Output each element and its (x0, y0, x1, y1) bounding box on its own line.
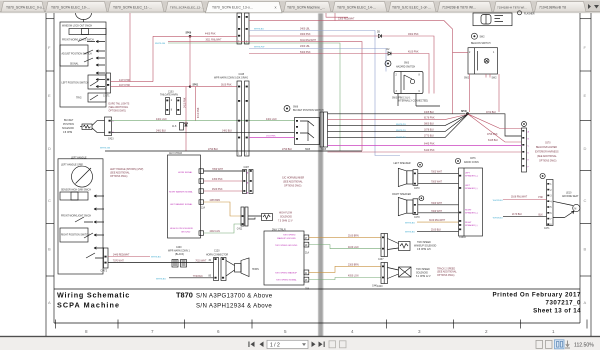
svg-text:3011 RNL/WHT: 3011 RNL/WHT (206, 39, 223, 41)
svg-text:4485 BRN: 4485 BRN (210, 200, 221, 202)
svg-text:HORN CONNECTOR: HORN CONNECTOR (206, 254, 229, 256)
svg-text:SW3: SW3 (404, 63, 410, 65)
inactive tabs (1, 2, 586, 13)
svg-text:HORN SIGNAL: HORN SIGNAL (178, 171, 193, 174)
svg-text:HIGH FLOW: HIGH FLOW (279, 213, 293, 215)
wire riser 3410 PNK (185, 87, 187, 151)
sheet frame left inner border (53, 13, 55, 323)
connector C27 strip (547, 180, 554, 226)
diode D4 (185, 123, 188, 126)
motor M (573, 204, 580, 211)
wire 3440 RED/WHT (108, 256, 150, 258)
connector C438 upper strip (237, 13, 242, 44)
wire 403 5 PNK (111, 86, 191, 88)
svg-text:2790 BLK: 2790 BLK (282, 149, 293, 151)
svg-text:WHT/LPU: WHT/LPU (396, 137, 406, 139)
svg-text:C-AT1: C-AT1 (103, 95, 110, 98)
svg-text:2: 2 (485, 329, 488, 334)
svg-text:FRONT WORKLIGHTS SWCH: FRONT WORKLIGHTS SWCH (62, 40, 94, 42)
svg-text:BUCKET: BUCKET (64, 120, 74, 122)
frame row ticks left (46, 19, 54, 276)
svg-text:RIGHT SPEAKER: RIGHT SPEAKER (392, 193, 411, 196)
window lockout switch row (69, 29, 106, 35)
svg-text:SJC HORN/BLINKER: SJC HORN/BLINKER (282, 178, 305, 180)
svg-text:2170 BLK: 2170 BLK (512, 214, 523, 216)
svg-text:WHT/LBU: WHT/LBU (254, 29, 264, 31)
left position switch box (88, 75, 106, 89)
switch SW8 body (295, 118, 320, 145)
svg-text:RIGHT: RIGHT (465, 222, 472, 224)
radio connector symbol (455, 158, 460, 163)
svg-text:WHT/LBU: WHT/LBU (493, 217, 503, 219)
svg-text:SIGNAL: SIGNAL (70, 63, 79, 66)
svg-text:BEACON/FLASHER: BEACON/FLASHER (536, 146, 557, 149)
svg-text:Wiring Schematic: Wiring Schematic (57, 291, 130, 300)
svg-text:1: 1 (552, 329, 555, 334)
frame row ticks right (580, 19, 591, 276)
switch SW2 beacon body (468, 48, 498, 74)
svg-text:E: E (584, 93, 587, 98)
svg-text:BEACON SWITCH: BEACON SWITCH (471, 42, 491, 45)
svg-text:B: B (48, 247, 51, 252)
wire 7003 WHT right (418, 204, 459, 206)
wire 4520 PNK (204, 190, 243, 192)
svg-text:RIGHT POSITION SWITCH: RIGHT POSITION SWITCH (61, 235, 90, 237)
svg-text:SOLENOID: SOLENOID (416, 273, 428, 275)
svg-text:7194198RevB T8: 7194198RevB T8 (539, 5, 566, 9)
wire 0100 PNK (190, 86, 237, 88)
svg-text:7000 WHT: 7000 WHT (431, 182, 443, 184)
svg-text:4400 PNK: 4400 PNK (205, 34, 216, 36)
wire 2160 BLK radio ground (417, 230, 459, 232)
svg-text:SW8: SW8 (305, 149, 311, 151)
connector C-AT1 (106, 73, 111, 93)
left handle box (58, 159, 103, 274)
svg-text:WPR HARN CONN 1: WPR HARN CONN 1 (168, 250, 191, 253)
svg-text:SP46: SP46 (461, 110, 467, 113)
svg-text:443 5 PNK: 443 5 PNK (119, 80, 131, 82)
svg-text:ADJUST POSITION SWITCH: ADJUST POSITION SWITCH (62, 53, 93, 56)
two speed wakeup solenoid coil (399, 242, 411, 251)
svg-text:(SEE ADDITIONAL: (SEE ADDITIONAL (437, 271, 457, 274)
svg-text:C: C (48, 198, 51, 203)
horn HN01 (235, 264, 242, 273)
svg-text:2160 BLK: 2160 BLK (431, 229, 442, 231)
svg-text:2160 BRN: 2160 BRN (348, 236, 359, 238)
svg-text:C278: C278 (414, 217, 420, 219)
svg-text:11.8: 11.8 (172, 126, 177, 128)
wire 4402 LGN (204, 224, 242, 233)
wires C411 to high flow solenoid (248, 216, 262, 219)
svg-text:WHT/LPW: WHT/LPW (254, 47, 265, 49)
svg-text:C440: C440 (377, 286, 383, 288)
svg-text:WHT/LBU: WHT/LBU (493, 200, 503, 202)
svg-text:7003 WHT: 7003 WHT (431, 203, 443, 205)
AUX controller box (168, 155, 201, 238)
left switch panel box (60, 22, 106, 107)
connector C270 (413, 170, 418, 186)
svg-text:C: C (584, 198, 587, 203)
svg-text:D: D (584, 146, 587, 151)
title block top line (54, 288, 580, 290)
page number box (267, 340, 308, 348)
svg-text:T870_SCPA Machine_...: T870_SCPA Machine_... (287, 5, 325, 9)
svg-text:D: D (48, 146, 51, 151)
air ride seat connector symbol (540, 173, 545, 178)
svg-text:TRACK 2 SPEED: TRACK 2 SPEED (437, 268, 455, 271)
svg-text:FRONT WORKLIGHT SWCH: FRONT WORKLIGHT SWCH (61, 216, 91, 218)
svg-text:RADIO CONN: RADIO CONN (464, 161, 479, 164)
svg-text:WAKEUP GROUND: WAKEUP GROUND (277, 237, 296, 240)
svg-text:SW8: SW8 (293, 107, 299, 109)
svg-text:C120: C120 (214, 251, 220, 253)
svg-text:TWO SPEED: TWO SPEED (417, 242, 431, 244)
svg-text:7003 WHT: 7003 WHT (431, 172, 443, 174)
wire 301 RNL/WHT (168, 42, 362, 151)
svg-text:BUCKET POSITION SWITCH: BUCKET POSITION SWITCH (293, 110, 324, 112)
svg-text:7070 WHT: 7070 WHT (113, 261, 125, 263)
svg-text:4160 LGN: 4160 LGN (348, 247, 359, 249)
svg-text:2481 BLK: 2481 BLK (156, 131, 167, 133)
svg-text:TWO SPEED WAKEUP: TWO SPEED WAKEUP (275, 272, 298, 275)
svg-text:WHT/LGN: WHT/LGN (155, 43, 166, 45)
svg-text:WHT/LBU: WHT/LBU (156, 278, 166, 280)
svg-text:WHT/LPU: WHT/LPU (396, 124, 406, 126)
svg-text:OPTIONS DWG): OPTIONS DWG) (109, 111, 127, 113)
svg-text:S/N A3PG13700 & Above: S/N A3PG13700 & Above (196, 292, 273, 299)
svg-text:SPEAKER (+): SPEAKER (+) (465, 175, 478, 178)
svg-text:C103: C103 (168, 92, 174, 94)
beacon switch symbol (471, 33, 477, 39)
svg-text:4450 PNK: 4450 PNK (212, 179, 223, 181)
svg-text:SW8: SW8 (321, 149, 327, 151)
svg-text:SCPA Machine: SCPA Machine (57, 301, 120, 310)
wire 4400 PNK (153, 35, 237, 37)
left speaker LS1 (398, 168, 407, 186)
harness bundle wire 6445 PNK magenta (328, 145, 522, 147)
wire 7070 WHT (108, 262, 214, 264)
svg-text:0100 PNK: 0100 PNK (221, 85, 232, 87)
svg-text:T870_SCPA ELEC_14-...: T870_SCPA ELEC_14-... (337, 5, 376, 9)
svg-text:SW2: SW2 (464, 77, 470, 79)
svg-text:12A: 12A (201, 207, 206, 210)
frame row letters left (48, 45, 51, 305)
wire 7000 WHT right (418, 212, 459, 214)
svg-text:3773 BLK: 3773 BLK (424, 136, 435, 138)
joystick circle (72, 166, 93, 187)
svg-text:3410 PNK: 3410 PNK (184, 97, 186, 108)
SP46 red fan to C670 (468, 114, 522, 142)
svg-text:S/N A3PH12934 & Above: S/N A3PH12934 & Above (196, 302, 272, 309)
svg-text:7: 7 (151, 329, 154, 334)
svg-text:7010 WHT: 7010 WHT (195, 261, 207, 263)
svg-text:FLASHER: FLASHER (524, 12, 535, 15)
svg-text:AIR RIDE SEAT: AIR RIDE SEAT (562, 195, 579, 198)
connector circle top (76, 13, 92, 20)
connector C437 (381, 234, 388, 257)
wire 4050 LGN (309, 278, 381, 280)
svg-text:A: A (48, 300, 51, 305)
svg-text:LE10: LE10 (566, 192, 572, 194)
wire 4160 LGN (309, 245, 381, 249)
svg-text:Sheet 13 of 14: Sheet 13 of 14 (533, 308, 581, 315)
svg-text:3400 LBL: 3400 LBL (300, 29, 311, 31)
tab scroll arrows (588, 4, 591, 9)
switch contact arrows (96, 40, 105, 87)
scan seam strip (318, 13, 324, 336)
svg-text:SP09: SP09 (186, 33, 192, 35)
svg-text:WAKEUP SOLENOID: WAKEUP SOLENOID (414, 245, 437, 248)
svg-text:AUX CTRLR: AUX CTRLR (169, 152, 182, 155)
right speaker LS2 (398, 198, 407, 216)
svg-text:C487: C487 (244, 167, 250, 169)
svg-text:M: M (574, 209, 576, 211)
svg-text:3166 RNL/WHT: 3166 RNL/WHT (511, 196, 528, 198)
svg-text:0722 BLK: 0722 BLK (486, 112, 497, 114)
svg-text:4100 PNK: 4100 PNK (408, 52, 419, 54)
svg-text:HAZARD SWITCH: HAZARD SWITCH (396, 66, 415, 69)
svg-text:C270: C270 (414, 188, 420, 190)
svg-text:OPTIONS DWG): OPTIONS DWG) (284, 186, 302, 188)
svg-text:C1010: C1010 (459, 237, 466, 239)
svg-text:C438: C438 (239, 74, 245, 76)
svg-text:T870_SCPA ELEC_11-...: T870_SCPA ELEC_11-... (113, 5, 152, 9)
svg-text:C411: C411 (237, 228, 243, 230)
svg-text:7050 WHT: 7050 WHT (212, 169, 224, 171)
harness bundle wire 0800 BLK (328, 115, 467, 126)
wire 4401 LGN (112, 120, 295, 122)
svg-text:LEFT: LEFT (465, 185, 471, 187)
svg-text:0302 PNK: 0302 PNK (408, 34, 419, 36)
wire riser 4310 PNK (195, 87, 197, 121)
svg-text:BLK: BLK (539, 214, 544, 216)
svg-text:WHT/LBU: WHT/LBU (405, 222, 415, 224)
svg-text:LEFT: LEFT (465, 173, 471, 175)
svg-text:0300 PNK: 0300 PNK (300, 34, 311, 36)
svg-text:TAILGATE HARN: TAILGATE HARN (160, 94, 178, 97)
connector C120 (214, 258, 219, 281)
connector C278 (413, 199, 418, 215)
svg-text:4310 PNK: 4310 PNK (198, 107, 200, 118)
svg-text:6440 PNK: 6440 PNK (424, 150, 435, 152)
svg-text:A: A (584, 300, 587, 305)
svg-text:SW3 (PINS 3 & 6:: SW3 (PINS 3 & 6: (392, 98, 411, 100)
wire 2300 LBL (249, 49, 386, 72)
svg-text:C271: C271 (544, 228, 550, 230)
svg-text:LEFT BANKER SIGNAL: LEFT BANKER SIGNAL (170, 203, 193, 206)
svg-text:4401 LGN: 4401 LGN (156, 119, 167, 121)
frame column numbers bottom (85, 329, 555, 334)
svg-text:C676: C676 (470, 158, 476, 160)
wire 7003 WHT left (418, 172, 459, 174)
svg-text:6445 PNK: 6445 PNK (424, 144, 435, 146)
window bottom edge (0, 336, 600, 337)
svg-text:7000 WHT: 7000 WHT (431, 211, 443, 213)
svg-text:0.8 OHM 12V: 0.8 OHM 12V (417, 249, 431, 251)
svg-text:RIGHT BANKER SIGNAL: RIGHT BANKER SIGNAL (169, 191, 194, 194)
svg-text:0.8 OHM: 0.8 OHM (63, 132, 72, 134)
svg-text:T870_SCPA ELEC_13-o...: T870_SCPA ELEC_13-o... (212, 5, 253, 9)
switch SW3 hazard body (394, 72, 423, 94)
svg-text:2790 BLK: 2790 BLK (208, 149, 219, 151)
wire 2790 BLK (105, 150, 362, 152)
front worklights switch (78, 38, 95, 42)
svg-text:112.50%: 112.50% (574, 342, 594, 348)
wire 7730 BLK (169, 277, 214, 279)
svg-text:C423: C423 (108, 139, 114, 141)
svg-text:POSITION: POSITION (63, 124, 74, 126)
svg-text:1 / 2: 1 / 2 (270, 342, 280, 348)
wire 0300 PNK with diode D5 (249, 36, 434, 94)
wire 2160 BRN (309, 236, 381, 238)
wire 443 5 PNK (111, 13, 154, 82)
svg-text:6176 PNK: 6176 PNK (424, 118, 435, 120)
hazard bottom wires (398, 94, 440, 107)
connector C423 (105, 117, 112, 136)
svg-text:T870_SCPA ELEC_9-o...: T870_SCPA ELEC_9-o... (6, 5, 45, 9)
svg-text:(BLACK): (BLACK) (175, 253, 184, 256)
harness bundle wire 1878 BLK (328, 115, 467, 132)
svg-text:E: E (48, 93, 51, 98)
sheet frame bottom inner border (54, 322, 580, 324)
svg-text:7307217_0: 7307217_0 (546, 300, 582, 307)
status bar (0, 337, 600, 350)
svg-text:C437: C437 (378, 259, 384, 261)
resistor 11.8 ohm between wires (180, 123, 184, 131)
svg-text:TWO SPEED GROUND: TWO SPEED GROUND (275, 245, 298, 247)
diode D2 (388, 52, 391, 55)
tab bar (0, 0, 600, 13)
svg-text:5300 PNK: 5300 PNK (300, 52, 311, 54)
svg-text:C400: C400 (176, 247, 182, 249)
svg-text:WHT/LBU: WHT/LBU (405, 232, 415, 234)
svg-text:6: 6 (217, 329, 220, 334)
svg-text:WHT/LBU: WHT/LBU (151, 257, 161, 259)
svg-text:LEFT HANDLE (SHOWN) (VSP): LEFT HANDLE (SHOWN) (VSP) (110, 168, 144, 171)
harness bundle wire 4305 BLK (328, 113, 466, 115)
bucket position switch symbol (284, 106, 290, 112)
hazard switch symbol (385, 61, 391, 67)
harness bundle wire 3773 BLK (328, 115, 468, 137)
connector C-AT2 (104, 248, 109, 268)
adjust position switch box (60, 45, 88, 66)
svg-text:403 5 PNK: 403 5 PNK (119, 85, 131, 87)
wire solenoid to C423 (92, 121, 105, 133)
connector C670 (522, 122, 527, 127)
svg-text:SW2: SW2 (480, 37, 486, 39)
wire 4100 PNK with diode D2 (249, 54, 429, 94)
svg-text:8: 8 (85, 329, 88, 334)
svg-text:C-AT2: C-AT2 (101, 270, 108, 273)
harness bundle wire 6176 PNK (328, 115, 467, 120)
svg-text:EXTERIOR HARNESS: EXTERIOR HARNESS (535, 151, 559, 154)
svg-text:4401 LGN: 4401 LGN (266, 119, 277, 121)
svg-text:(SEE ADDITIONAL: (SEE ADDITIONAL (537, 155, 557, 158)
svg-text:1481 BLK: 1481 BLK (222, 131, 233, 133)
sheet frame left outer border (45, 13, 47, 336)
wire 1300 RED/WHT top run (249, 21, 453, 114)
wire 4485 BRN (204, 202, 242, 216)
right status icons (536, 340, 552, 348)
svg-text:RIGHT: RIGHT (465, 210, 472, 212)
resistor bucket solenoid (82, 124, 92, 130)
svg-text:0800 BLK: 0800 BLK (424, 124, 435, 126)
svg-text:(SEE ADDITIONAL: (SEE ADDITIONAL (110, 172, 130, 175)
svg-text:C670: C670 (545, 143, 551, 145)
diode D5 (379, 34, 382, 37)
wire 3166 RNL/WHT (503, 199, 547, 201)
svg-text:SPEAKER (-): SPEAKER (-) (465, 187, 478, 190)
svg-text:4402 LGN: 4402 LGN (210, 231, 221, 233)
svg-text:(SEE ADDITIONAL: (SEE ADDITIONAL (109, 106, 129, 109)
svg-text:(SEE ADDITIONAL: (SEE ADDITIONAL (283, 181, 303, 184)
svg-text:3440 RED/WHT: 3440 RED/WHT (113, 255, 130, 257)
svg-text:3011 RNL/WHT: 3011 RNL/WHT (300, 40, 317, 42)
sheet frame right outer border (590, 13, 592, 336)
svg-text:T870_SJC ELEC_1-of-...: T870_SJC ELEC_1-of-... (392, 5, 431, 9)
connector strip SW8 (320, 112, 328, 147)
svg-text:7194208-B T870 WI...: 7194208-B T870 WI... (442, 5, 476, 9)
svg-text:B: B (584, 247, 587, 252)
node SP01 (189, 85, 191, 87)
svg-text:WHT/LGN: WHT/LGN (100, 148, 111, 150)
svg-text:4305 BLK: 4305 BLK (424, 112, 435, 114)
node SP46 (466, 112, 469, 115)
svg-text:7194188-H T870 WI...: 7194188-H T870 WI... (497, 5, 527, 9)
trigger switch box (88, 93, 106, 102)
svg-text:21B: 21B (305, 289, 310, 291)
svg-text:TWO SPEED: TWO SPEED (283, 234, 296, 236)
svg-text:SENSOR HIGH GAIN SWCH: SENSOR HIGH GAIN SWCH (61, 189, 91, 192)
svg-text:TWO SPEED SIGNAL: TWO SPEED SIGNAL (276, 279, 298, 282)
sheet frame right inner border (579, 13, 581, 323)
svg-text:T870: T870 (176, 291, 193, 300)
svg-text:HIGH FLOW SOLENOID: HIGH FLOW SOLENOID (170, 228, 194, 230)
svg-text:Printed On February 2017: Printed On February 2017 (492, 292, 581, 299)
wire 0722 BLK (468, 114, 522, 136)
svg-text:GROUND: GROUND (181, 232, 191, 234)
harness bundle wire 6440 PNK (328, 151, 522, 153)
svg-text:OPTIONS DWG): OPTIONS DWG) (437, 275, 455, 277)
svg-text:1878 BLK: 1878 BLK (424, 130, 435, 132)
wire 2481 BLK (112, 131, 295, 133)
svg-text:OPTIONS DWG): OPTIONS DWG) (110, 176, 128, 178)
svg-text:4050 LGN: 4050 LGN (348, 276, 359, 278)
handle inner row (60, 192, 88, 200)
ghost page icons (329, 341, 346, 348)
svg-text:1903 PNK: 1903 PNK (266, 136, 276, 138)
active tab (206, 1, 283, 12)
beacon red wiring (453, 53, 500, 112)
wire 1903 PNK magenta (249, 137, 295, 139)
frame column ticks bottom (56, 320, 588, 329)
wire green WHT/LGN run (168, 43, 340, 151)
radio connector box C676 (459, 168, 483, 236)
svg-text:5.1 OHM 12 V: 5.1 OHM 12 V (416, 276, 431, 278)
node SP09 (189, 35, 192, 38)
wire 2170 BLK (503, 215, 547, 217)
svg-text:4520 PNK: 4520 PNK (212, 189, 223, 191)
coil high flow solenoid (262, 214, 273, 221)
svg-text:TWO SPEED: TWO SPEED (416, 269, 430, 271)
wire 7050 WHT (204, 170, 243, 172)
connector C400 pins (172, 260, 178, 268)
svg-text:7730 BLK: 7730 BLK (193, 276, 204, 278)
handle switch row 3 (60, 228, 88, 242)
svg-text:2300 BRN: 2300 BRN (348, 264, 359, 266)
svg-text:SPEAKER (+): SPEAKER (+) (465, 212, 478, 215)
svg-text:SOLENOID: SOLENOID (62, 128, 74, 130)
